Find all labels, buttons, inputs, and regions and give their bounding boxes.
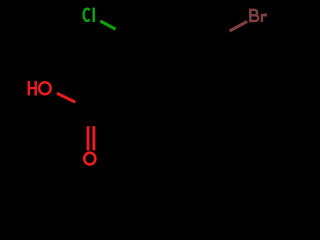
atom label O (carbonyl) (84, 153, 95, 165)
bond O-C of carboxyl (red half) (57, 93, 75, 102)
bond C-Br (brown half) (230, 21, 248, 31)
bond C-Cl (green half) (100, 21, 115, 29)
atom label Cl (84, 8, 94, 22)
atom label Br (250, 9, 265, 23)
double bond C=O red half, left bar (87, 126, 90, 150)
atom label HO (hydroxyl) (29, 81, 51, 96)
molecule: 4-bromo-2-chlorobenzoic acid on black background (0, 0, 300, 176)
double bond C=O red half, right bar (92, 126, 95, 150)
